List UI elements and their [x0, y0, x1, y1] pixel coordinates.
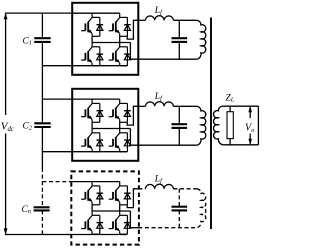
IGBT switch S22 with antiparallel diode (upper-right of module 2) [109, 99, 131, 122]
svg-text:Vdc: Vdc [1, 121, 14, 134]
wire: DC bus below C2 (solid part) [41, 127, 43, 168]
Vdc measurement line lower shaft with arrowhead [5, 134, 7, 234]
wire: DC bus dashed bottom segment [41, 210, 43, 234]
wire: module 1 phase wire (left-leg output) [92, 42, 130, 44]
wire: module 2 filter input wire [138, 105, 145, 107]
capacitor Cf (module 3 filter) [172, 206, 188, 208]
capacitor Cf (module 2 filter) [172, 123, 188, 125]
wire: module 2 DC+ rail from bus [42, 98, 119, 100]
svg-text:C2: C2 [23, 121, 32, 131]
wire: module 3 filter top wire to transformer [173, 188, 197, 190]
wire: module 1 left leg midpoint link [91, 36, 93, 42]
transformer secondary winding [213, 106, 223, 145]
capacitor C2 [34, 122, 50, 124]
IGBT switch S24 with antiparallel diode (lower-right of module 2) [109, 129, 131, 152]
H-bridge module 1 outline box [72, 3, 138, 75]
wire: module 1 filter capacitor top lead [178, 20, 180, 38]
wire: module 3 filter capacitor bottom lead [178, 210, 180, 227]
IGBT switch S32 with antiparallel diode (upper-right of module 3) [109, 182, 131, 205]
IGBT switch S13 with antiparallel diode (lower-left of module 1) [81, 43, 103, 66]
wire: module 2 filter capacitor top lead [178, 106, 180, 124]
wire: module 3 phase wire (left-leg output) [92, 210, 130, 212]
IGBT switch S14 with antiparallel diode (lower-right of module 1) [109, 43, 131, 66]
Vo measurement arrow lower shaft with arrowhead [249, 134, 251, 144]
svg-text:Lf: Lf [154, 175, 163, 185]
IGBT switch S31 with antiparallel diode (upper-left of module 3) [81, 182, 103, 205]
wire: module 3 filter bottom return wire [138, 227, 197, 229]
wire: module 2 phase wire (left-leg output) [92, 128, 130, 130]
wire: module 3 DC+ rail [72, 181, 120, 183]
transformer T3 primary winding [197, 189, 206, 228]
capacitor C1 [34, 37, 50, 39]
inductor Lf (module 3 filter) [145, 184, 173, 189]
H-bridge module 2 outline box [72, 89, 138, 161]
transformer T2 primary winding [197, 106, 206, 145]
wire: module 3 DC+ feeder from bus (dashed) [42, 181, 72, 183]
wire: module 1 AC output 2 route (left-leg to bottom exit) [130, 43, 138, 60]
wire: load ZL top lead [229, 106, 231, 112]
wire: module 3 left leg midpoint link [91, 205, 93, 211]
wire: module 2 right leg midpoint link [119, 122, 121, 128]
wire: module 1 right leg midpoint link [119, 36, 121, 42]
wire: module 2 filter top wire to transformer [173, 105, 197, 107]
load ZL (rectangle) [227, 112, 233, 139]
svg-text:Lf: Lf [154, 92, 163, 102]
wire: module 1 DC- rail to bus [42, 65, 127, 67]
wire: module 1 DC+ rail (fed from top input wire) [72, 12, 120, 14]
node Vdc+ : top DC input wire [5, 12, 120, 14]
wire: module 3 right leg midpoint link [119, 205, 121, 211]
wire: module 2 DC- rail to bus [42, 151, 127, 153]
wire: module 3 AC output 2 route (left-leg to bottom exit) [130, 211, 138, 228]
svg-text:ZL: ZL [226, 93, 235, 103]
wire: module 2 filter capacitor bottom lead [178, 128, 180, 145]
wire: module 1 AC output 1 route (right-leg to top exit) [127, 20, 138, 39]
wire: DC bus dashed segment to Cn [41, 168, 43, 207]
wire: module 1 filter top wire to transformer [173, 19, 197, 21]
Vdc measurement line upper shaft with arrowhead [5, 14, 7, 115]
wire: load ZL bottom lead [229, 139, 231, 145]
wire: module 2 filter bottom return wire [138, 144, 197, 146]
wire: secondary top wire [223, 105, 258, 107]
node Vdc- : bottom DC input wire [5, 234, 43, 236]
IGBT switch S33 with antiparallel diode (lower-left of module 3) [81, 211, 103, 234]
wire: module 1 filter input wire [138, 19, 145, 21]
wire: module 3 filter input wire [138, 188, 145, 190]
wire: module 1 filter capacitor bottom lead [178, 42, 180, 59]
inductor Lf (module 1 filter) [145, 16, 173, 21]
IGBT switch S11 with antiparallel diode (upper-left of module 1) [81, 13, 103, 36]
capacitor Cf (module 1 filter) [172, 37, 188, 39]
wire: module 1 filter bottom return wire [138, 58, 197, 60]
wire: module 2 left leg midpoint link [91, 122, 93, 128]
wire: secondary bottom wire [223, 144, 258, 146]
capacitor Cn [34, 206, 50, 208]
wire: module 2 AC output 1 route (right-leg to top exit) [127, 106, 138, 125]
IGBT switch S23 with antiparallel diode (lower-left of module 2) [81, 129, 103, 152]
wire: module 2 AC output 2 route (left-leg to bottom exit) [130, 129, 138, 146]
transformer core line [210, 18, 212, 230]
svg-text:Cn: Cn [22, 205, 31, 215]
IGBT switch S34 with antiparallel diode (lower-right of module 3) [109, 211, 131, 234]
IGBT switch S12 with antiparallel diode (upper-right of module 1) [109, 13, 131, 36]
svg-text:C1: C1 [23, 36, 32, 46]
H-bridge module 3 outline box [71, 171, 139, 244]
wire: DC bus middle segment [41, 42, 43, 123]
svg-text:Vo: Vo [245, 123, 255, 134]
wire: DC bus upper segment [41, 13, 43, 38]
svg-text:Lf: Lf [154, 6, 163, 16]
wire: module 3 DC- rail (joins bottom input wire) [42, 234, 127, 236]
inductor Lf (module 2 filter) [145, 102, 173, 107]
wire: module 3 AC output 1 route (right-leg to top exit) [127, 189, 138, 208]
wire: secondary right-side vertical wire [257, 106, 259, 145]
IGBT switch S21 with antiparallel diode (upper-left of module 2) [81, 99, 103, 122]
Vo measurement arrow upper shaft with arrowhead [249, 107, 251, 118]
transformer T1 primary winding [197, 20, 206, 59]
wire: module 3 filter capacitor top lead [178, 189, 180, 207]
